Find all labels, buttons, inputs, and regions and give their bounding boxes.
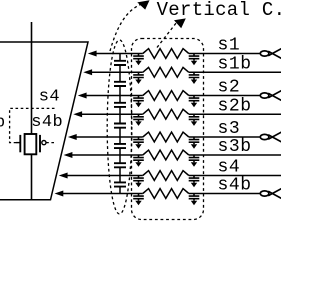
svg-text:s4: s4 [39,87,60,106]
svg-text:Vertical C.: Vertical C. [157,0,281,21]
svg-text:s4b: s4b [31,113,63,132]
svg-text:s2: s2 [218,78,241,98]
svg-text:s1: s1 [218,36,241,56]
svg-text:s1b: s1b [218,55,252,75]
svg-text:s4b: s4b [218,176,252,196]
svg-text:s3: s3 [218,119,241,139]
svg-text:s3b: s3b [218,137,252,157]
svg-text:s2b: s2b [218,96,252,116]
svg-text:b: b [0,113,5,132]
svg-text:s4: s4 [218,158,241,178]
